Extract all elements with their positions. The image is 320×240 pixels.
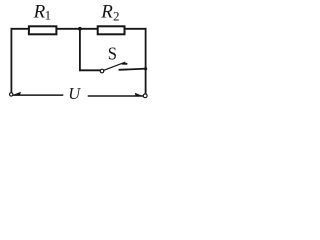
wire middle stub (junction between R1 and R2 down to switch branch) [79,29,81,71]
svg-text:R: R [100,1,113,22]
wire bottom rail left segment [14,94,63,96]
terminal circle bottom-right [143,94,147,98]
wire top rail [11,28,145,30]
wire bottom rail right segment [89,95,143,97]
wire switch fixed contact [120,69,146,70]
svg-text:1: 1 [45,8,52,23]
node A junction dot between R1 and R2 [78,27,82,31]
node B junction dot at right wire and switch contact [144,67,147,70]
arrowhead pointing left at left terminal [14,92,22,95]
svg-text:2: 2 [113,9,120,24]
switch S blade [104,62,125,70]
resistor R2 [98,26,125,34]
wire switch branch horizontal [80,69,100,71]
terminal circle bottom-left [10,93,13,96]
arrowhead pointing right at right terminal [135,93,143,97]
switch S blade tip hook [122,63,126,65]
switch S hinge circle [100,69,104,73]
svg-text:U: U [68,84,81,103]
resistor R1 [29,26,57,34]
svg-text:S: S [108,44,117,64]
wire right vertical [145,29,147,93]
wire left vertical [10,29,12,93]
